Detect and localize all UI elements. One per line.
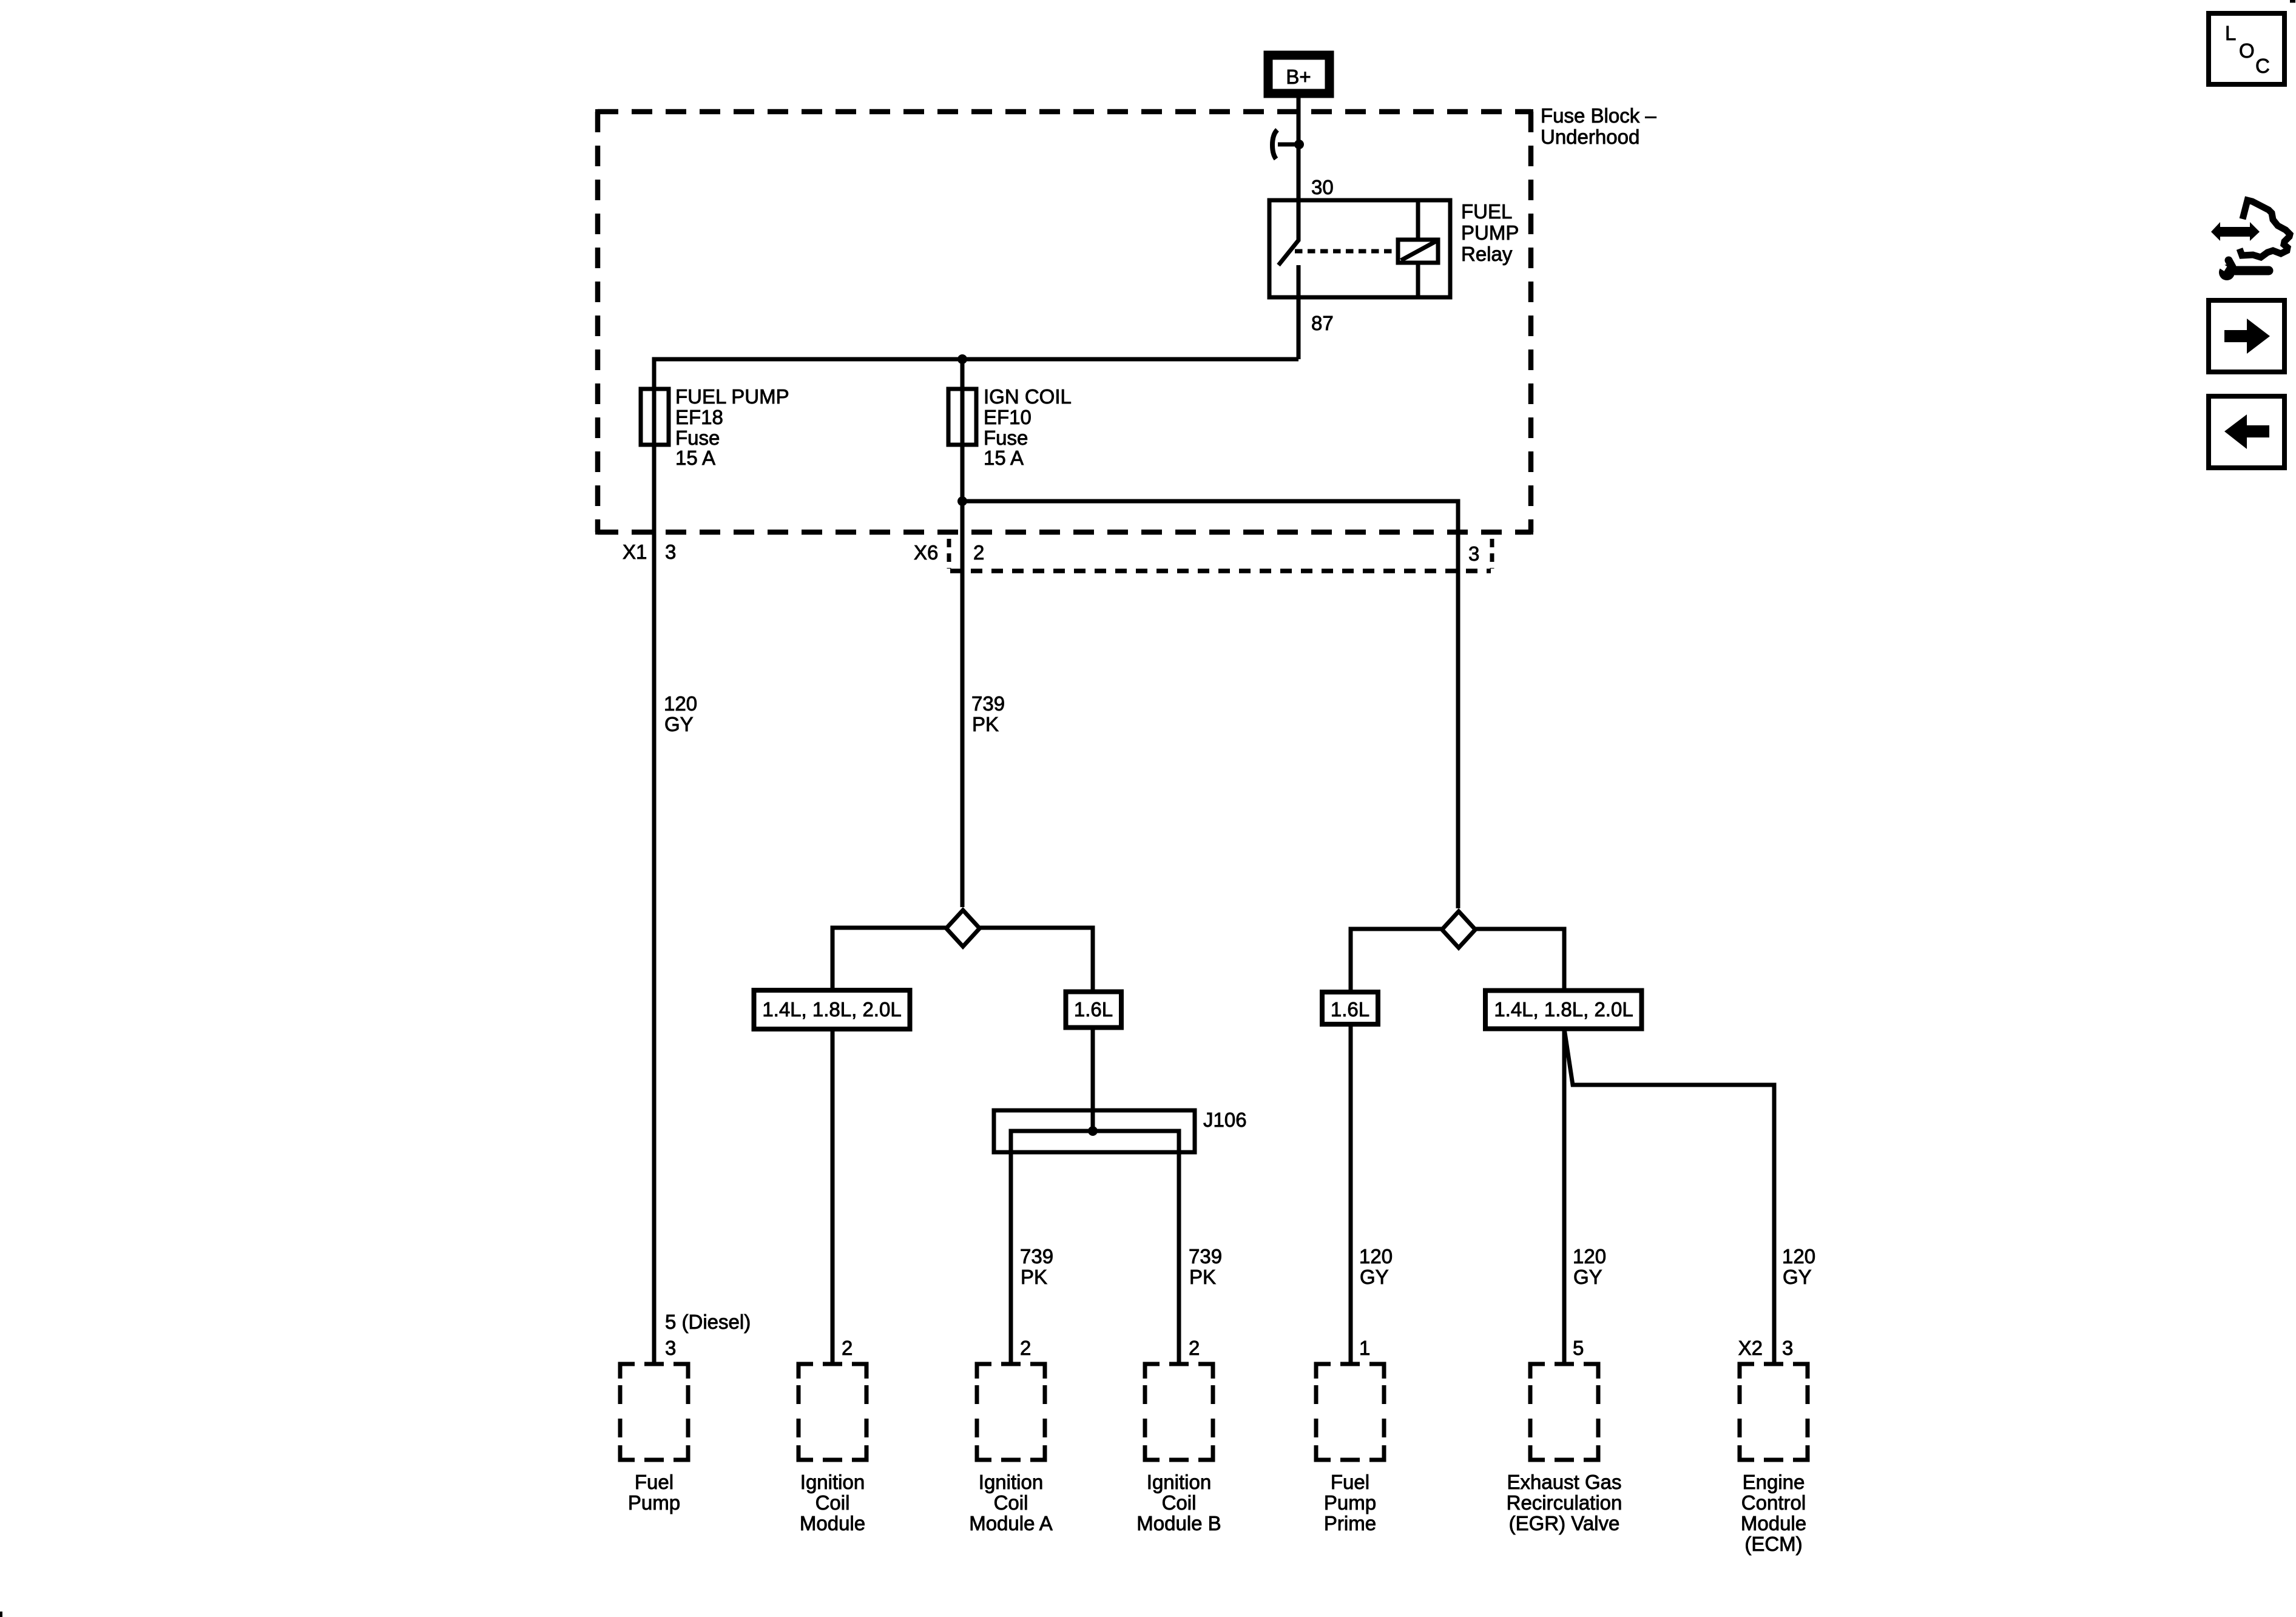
J106 internal bus [1011, 1131, 1179, 1364]
svg-text:Engine: Engine [1743, 1471, 1805, 1493]
svg-text:IGN COIL: IGN COIL [984, 385, 1072, 408]
wire: right splice to 1.6L branch [1351, 929, 1442, 992]
device Ignition Coil Module A box [977, 1364, 1045, 1460]
fuse block corner ticks [598, 112, 1531, 532]
svg-text:2: 2 [973, 541, 984, 564]
device Ignition Coil Module B box [1145, 1364, 1213, 1460]
svg-text:FUEL: FUEL [1461, 200, 1512, 223]
svg-text:1.6L: 1.6L [1074, 998, 1113, 1021]
svg-text:Fuse Block –: Fuse Block – [1541, 104, 1656, 127]
svg-text:Coil: Coil [994, 1491, 1028, 1514]
option box 1.4L, 1.8L, 2.0L (right) [1485, 991, 1642, 1029]
svg-text:J106: J106 [1203, 1109, 1247, 1131]
svg-text:739: 739 [1189, 1245, 1222, 1268]
svg-text:15 A: 15 A [675, 447, 715, 469]
svg-text:Pump: Pump [1324, 1491, 1376, 1514]
wire: left 1.4L box to Ignition Coil Module [831, 1029, 835, 1364]
wire: right 1.4L box jog to ECM [1564, 1029, 1774, 1365]
svg-text:X6: X6 [914, 541, 938, 564]
svg-text:120: 120 [1359, 1245, 1393, 1268]
svg-text:(ECM): (ECM) [1744, 1533, 1802, 1555]
svg-text:3: 3 [665, 1337, 676, 1359]
wire: IGN COIL fuse output down through X6 pin 2 [961, 445, 965, 907]
icon double-headed arrow [2211, 222, 2260, 241]
svg-text:Underhood: Underhood [1541, 126, 1639, 148]
svg-text:1.6L: 1.6L [1331, 998, 1369, 1021]
connector X6 dashed line [950, 569, 1491, 573]
svg-text:PK: PK [1189, 1266, 1216, 1288]
svg-text:X1: X1 [623, 541, 647, 563]
svg-text:5 (Diesel): 5 (Diesel) [665, 1311, 751, 1333]
artifact mark top-right [2290, 0, 2295, 3]
relay switch blade [1278, 200, 1298, 265]
svg-text:1.4L, 1.8L, 2.0L: 1.4L, 1.8L, 2.0L [1494, 998, 1633, 1021]
option box 1.6L (right) [1322, 992, 1378, 1024]
svg-text:30: 30 [1311, 176, 1334, 198]
icon: double arrow with wrench [2211, 200, 2290, 280]
svg-text:739: 739 [971, 692, 1005, 715]
svg-text:Ignition: Ignition [800, 1471, 865, 1493]
connector X6 right tick [1490, 539, 1494, 569]
relay FUEL PUMP Relay box [1269, 200, 1450, 297]
nav box arrow left [2209, 396, 2284, 468]
splice node left [947, 910, 980, 947]
svg-text:GY: GY [664, 713, 694, 735]
svg-text:Module: Module [1741, 1512, 1806, 1534]
svg-text:Exhaust Gas: Exhaust Gas [1507, 1471, 1622, 1493]
connector X6 left tick [947, 539, 951, 569]
svg-text:1: 1 [1359, 1337, 1370, 1359]
relay coil box [1398, 240, 1438, 263]
wire: right splice to 1.4L branch [1475, 929, 1564, 990]
svg-text:C: C [2255, 55, 2270, 77]
junction block J106 box [994, 1110, 1195, 1152]
svg-text:2: 2 [1020, 1337, 1031, 1359]
svg-text:Module B: Module B [1136, 1512, 1221, 1534]
svg-text:B+: B+ [1286, 66, 1311, 88]
wire: B+ to relay pin 30 [1297, 98, 1301, 200]
svg-text:120: 120 [664, 692, 697, 715]
relay coil terminal wires [1416, 200, 1420, 240]
device ECM box [1740, 1364, 1808, 1460]
wire: right 1.4L box to EGR valve [1562, 1029, 1567, 1365]
svg-text:3: 3 [1468, 542, 1479, 565]
artifact dot bottom-left [0, 1612, 2, 1617]
svg-text:Coil: Coil [1162, 1491, 1197, 1514]
svg-text:5: 5 [1573, 1337, 1584, 1359]
svg-text:Relay: Relay [1461, 243, 1513, 265]
wire: right 1.6L box to Fuel Pump Prime [1349, 1024, 1353, 1364]
svg-text:Pump: Pump [628, 1491, 680, 1514]
node: junction dot at IGN COIL fuse feed [957, 354, 967, 364]
svg-text:(EGR) Valve: (EGR) Valve [1509, 1512, 1620, 1534]
wire: left splice to left branch [832, 928, 946, 990]
svg-text:X2: X2 [1738, 1337, 1763, 1359]
icon outline shape [2240, 200, 2290, 257]
option box 1.4L, 1.8L, 2.0L (left) [754, 990, 910, 1029]
svg-text:EF10: EF10 [984, 406, 1032, 428]
svg-text:Fuse: Fuse [984, 427, 1028, 449]
svg-text:Coil: Coil [815, 1491, 850, 1514]
svg-text:GY: GY [1573, 1266, 1602, 1288]
svg-text:87: 87 [1311, 312, 1334, 334]
fuse FUEL PUMP EF18 [641, 389, 669, 445]
svg-text:GY: GY [1783, 1266, 1812, 1288]
svg-text:O: O [2239, 39, 2255, 62]
svg-text:Module A: Module A [969, 1512, 1053, 1534]
connector hook symbol on B+ feed [1272, 130, 1277, 159]
node: J106 junction dot [1088, 1126, 1098, 1136]
svg-text:FUEL PUMP: FUEL PUMP [675, 385, 789, 408]
svg-text:GY: GY [1360, 1266, 1389, 1288]
svg-text:PK: PK [1021, 1266, 1047, 1288]
svg-text:Fuel: Fuel [635, 1471, 674, 1493]
legend LOC box [2209, 13, 2284, 84]
nav box arrow right [2209, 300, 2284, 372]
power terminal B+ box [1268, 55, 1329, 93]
relay actuator dashed link [1295, 249, 1398, 254]
svg-text:L: L [2225, 22, 2236, 44]
node: junction dot on B+ feed [1294, 140, 1304, 149]
svg-text:1.4L, 1.8L, 2.0L: 1.4L, 1.8L, 2.0L [762, 998, 901, 1021]
wire: left splice to right branch [979, 928, 1093, 991]
wire: relay pin 87 down [1297, 265, 1301, 359]
svg-text:3: 3 [1782, 1337, 1793, 1359]
svg-text:PUMP: PUMP [1461, 221, 1519, 244]
node: junction dot below IGN COIL fuse [957, 496, 967, 506]
option box 1.6L (left) [1066, 992, 1122, 1028]
svg-text:Module: Module [800, 1512, 865, 1534]
device Fuel Pump box [620, 1364, 688, 1460]
svg-text:Recirculation: Recirculation [1507, 1491, 1622, 1514]
device EGR Valve box [1530, 1364, 1598, 1460]
svg-text:15 A: 15 A [984, 447, 1024, 469]
svg-text:2: 2 [842, 1337, 853, 1359]
svg-text:120: 120 [1782, 1245, 1815, 1268]
wire: down to IGN COIL fuse [961, 359, 965, 389]
wire: horizontal to X6 pin 3 [962, 501, 1458, 908]
svg-text:PK: PK [972, 713, 999, 735]
svg-text:Fuse: Fuse [675, 427, 720, 449]
svg-text:3: 3 [665, 541, 676, 563]
wire: FUEL PUMP fuse output down through X1 pin 3 [652, 445, 657, 1364]
svg-text:Control: Control [1741, 1491, 1806, 1514]
fuse block - underhood dashed box [598, 112, 1531, 532]
wire: 87 feed horizontal to fuses [654, 359, 1298, 389]
relay coil diagonal [1401, 241, 1436, 260]
wire: stub left of junction [1278, 143, 1299, 147]
svg-text:Ignition: Ignition [979, 1471, 1043, 1493]
svg-text:Ignition: Ignition [1147, 1471, 1211, 1493]
icon wrench [2216, 260, 2269, 280]
device Ignition Coil Module box [799, 1364, 866, 1460]
svg-text:739: 739 [1020, 1245, 1053, 1268]
svg-text:2: 2 [1189, 1337, 1200, 1359]
fuse IGN COIL EF10 [948, 389, 976, 445]
wire: left 1.6L box to J106 [1091, 1027, 1095, 1132]
device Fuel Pump Prime box [1316, 1364, 1384, 1460]
splice node right [1442, 911, 1476, 948]
svg-text:Prime: Prime [1324, 1512, 1376, 1534]
svg-text:EF18: EF18 [675, 406, 723, 428]
svg-text:Fuel: Fuel [1331, 1471, 1369, 1493]
svg-text:120: 120 [1573, 1245, 1606, 1268]
